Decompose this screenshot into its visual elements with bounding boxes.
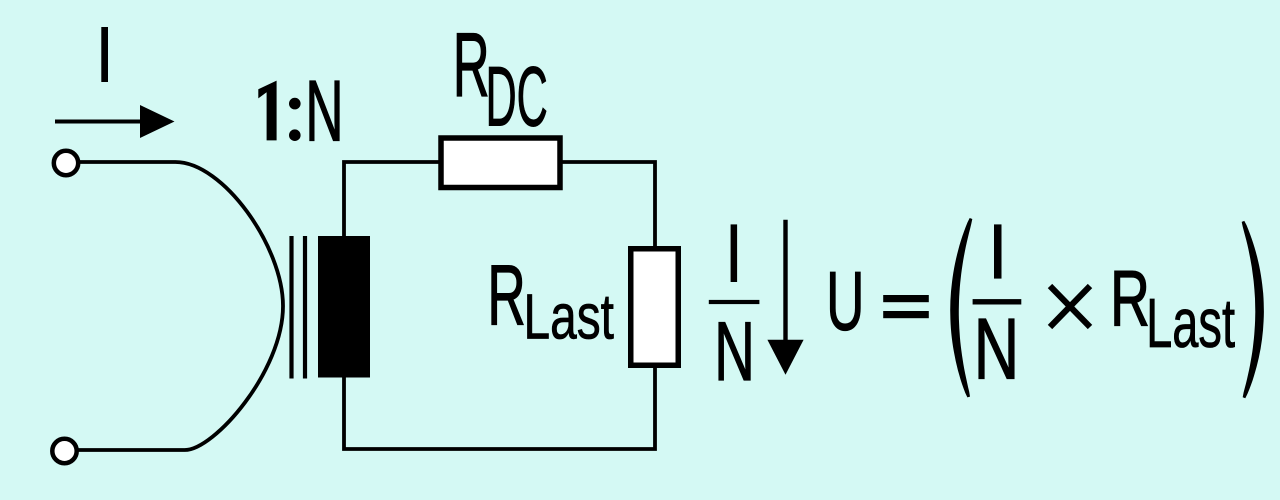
arrow (secondary current direction, down) <box>767 220 803 375</box>
left parenthesis <box>950 218 972 397</box>
label I/N (secondary current fraction) <box>709 224 760 398</box>
resistor RDC <box>441 138 560 188</box>
terminal (bottom input) <box>52 439 76 463</box>
svg-text:R: R <box>453 13 490 116</box>
arrow (primary current direction) <box>55 105 175 138</box>
terminal (top input) <box>54 151 78 175</box>
resistor RLast <box>631 249 679 366</box>
right parenthesis <box>1242 221 1264 398</box>
label I (primary current) <box>101 27 108 82</box>
formula U = (I/N x RLast) <box>826 218 1264 398</box>
multiplication sign <box>1050 286 1090 327</box>
svg-text:R: R <box>1110 255 1150 343</box>
label RLast <box>487 247 614 352</box>
wire (secondary loop) <box>344 162 655 449</box>
I over N <box>994 224 1002 278</box>
equals sign <box>883 295 929 302</box>
svg-text:N: N <box>305 63 343 159</box>
svg-text:U: U <box>826 254 864 347</box>
svg-text:Last: Last <box>1146 284 1235 362</box>
label RDC <box>453 13 548 144</box>
svg-text:Last: Last <box>524 281 615 352</box>
wire + transformer primary winding (arc) <box>77 162 283 450</box>
svg-text:N: N <box>974 301 1019 397</box>
transformer secondary winding <box>318 236 370 378</box>
svg-text:DC: DC <box>486 51 548 144</box>
transformer core <box>292 236 306 379</box>
label 1:N (turns ratio) <box>258 63 343 159</box>
svg-text:R: R <box>487 247 525 343</box>
svg-text:N: N <box>714 305 755 399</box>
